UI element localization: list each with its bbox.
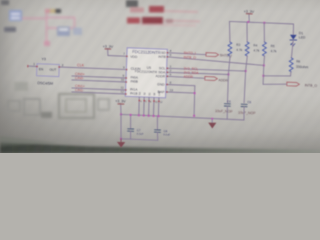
IC bottom pin 4 wire: [138, 97, 141, 115]
wire IN1A: [72, 88, 126, 90]
ground symbol GND1: [120, 139, 122, 142]
pin dot: [166, 76, 168, 78]
capacitor C8 branch bottom: [156, 132, 158, 140]
node: bottom pin junction: [153, 115, 155, 117]
capacitor C6: [241, 103, 247, 105]
capacitor C7: [128, 128, 134, 130]
off-page connector ADDR: [205, 77, 218, 81]
ground symbol GND2: [211, 119, 213, 123]
node: R6 junction on R5 branch: [262, 75, 264, 77]
node: rail junction R5: [263, 22, 265, 24]
pin dot: [166, 56, 168, 58]
photo texture overlays: [0, 0, 320, 153]
wire R4 bottom to SCL node: [246, 56, 248, 71]
capacitor C8: [155, 129, 161, 131]
wire ADDR pin to ADDR flag: [167, 76, 205, 78]
capacitor C7 branch bottom: [130, 131, 132, 139]
wire SCL node down to C6: [244, 71, 246, 103]
IC bottom pin 12 wire: [157, 98, 160, 116]
node: SDA junction C5/R3: [227, 73, 229, 75]
pin dot: [125, 89, 127, 91]
IC U5 FDC2112DNTR body: [125, 48, 167, 98]
pin dot: [158, 101, 160, 103]
wire GND pin 8: [167, 85, 195, 86]
IC bottom pin 6 wire: [148, 97, 151, 115]
LED D1: [290, 35, 297, 40]
pin dot: [126, 56, 128, 58]
wire power to VDD pin 7: [108, 55, 127, 58]
power symbol +3_3V (bottom left): [120, 105, 122, 115]
wire R3 bottom to SDA node: [228, 56, 230, 74]
pin dot: [139, 100, 141, 102]
pin dot EN: [36, 66, 38, 68]
wire down to flag corner: [262, 76, 264, 85]
wire to oscillator EN pin 1: [28, 65, 37, 67]
pin dot: [166, 91, 168, 93]
pin dot: [125, 93, 127, 95]
wire rail to R4 top: [246, 22, 248, 42]
wire SDA node down to C5: [227, 74, 230, 102]
pin dot: [153, 100, 155, 102]
resistor R6: [289, 58, 293, 72]
pin dot: [166, 84, 168, 86]
resistor R5: [263, 42, 267, 56]
node: bottom pin junction: [157, 115, 159, 117]
pin stub mark: [27, 65, 29, 67]
bottom dark band (photo edge): [0, 136, 320, 153]
power symbol +3_3V (VDD): [107, 49, 109, 55]
wire rail to R5 top: [263, 23, 265, 42]
node: GND/DAP junction: [194, 92, 196, 94]
node: bottom pin junction: [143, 114, 145, 116]
node: C7 junction: [130, 114, 132, 116]
node: INTB junction on R5 branch: [263, 64, 265, 66]
capacitor C7 branch top: [130, 115, 132, 129]
node: lower rail junction: [120, 138, 122, 140]
node: SCL junction C6/R4: [245, 70, 247, 72]
power symbol +3_3V (rail): [248, 15, 250, 22]
node: power stem junction: [120, 113, 122, 115]
pin dot: [166, 68, 168, 70]
wire IN1B: [72, 92, 126, 94]
off-page connector SHTD_I: [206, 53, 219, 57]
pin dot OUT: [58, 66, 60, 68]
node: bottom pin junction: [138, 114, 140, 116]
pin dot: [126, 77, 128, 79]
wire R5 bottom to INTB node: [263, 56, 266, 65]
wire SDA pin to R3 branch: [167, 72, 228, 74]
pin dot: [166, 52, 168, 54]
node: rail junction R4/power: [247, 21, 249, 23]
blurry bottom-left faint shapes: [8, 82, 109, 118]
pin dot: [126, 69, 128, 71]
wire C6 to ground net: [243, 107, 245, 120]
wire SD pin to SHTD_I flag: [167, 53, 206, 55]
wire DAP pin 13: [167, 92, 195, 93]
node: GND2 junction: [211, 118, 213, 120]
lower rail wire: [121, 139, 158, 141]
capacitor C5: [224, 103, 230, 105]
wire SCL pin to R4 branch: [167, 68, 245, 71]
IC bottom pin 5 wire: [143, 97, 146, 115]
wire GND corner down to ground net: [193, 86, 196, 116]
capacitor C8 branch top: [156, 116, 158, 130]
oscillator Y3 body: [37, 64, 60, 77]
ground net wire (horizontal): [121, 114, 244, 120]
power rail +3_3V (top right): [230, 21, 294, 24]
resistor R3: [228, 42, 232, 56]
node: bottom pin junction: [148, 115, 150, 117]
pin dot: [126, 81, 128, 83]
node: junction on ground wire: [193, 115, 195, 117]
wire IN0A: [72, 76, 127, 78]
pin dot: [143, 100, 145, 102]
off-page connector INTB_O: [287, 82, 300, 86]
resistor R4: [245, 42, 249, 56]
wire rail to R3 top: [229, 21, 231, 42]
wire IN0B: [72, 80, 127, 82]
wire INTB pin to R5 branch: [167, 57, 264, 66]
wire INTB node down: [262, 65, 264, 75]
wire rail to LED D1: [292, 24, 294, 35]
wire R6 bottom: [290, 72, 292, 76]
pin dot: [148, 100, 150, 102]
wire vertical to lower rail: [120, 114, 122, 138]
wire oscillator OUT pin 3 to CLKIN: [59, 67, 127, 70]
wire C5 to ground net: [226, 106, 228, 119]
wire R6 to R5 branch: [263, 75, 290, 77]
wire LED to R6: [291, 40, 293, 58]
blurry out-of-focus background clutter: [1, 0, 200, 46]
pin dot: [166, 72, 168, 74]
wire corner to INTB_O flag: [263, 83, 287, 85]
IC bottom pin 10 wire: [153, 97, 156, 115]
